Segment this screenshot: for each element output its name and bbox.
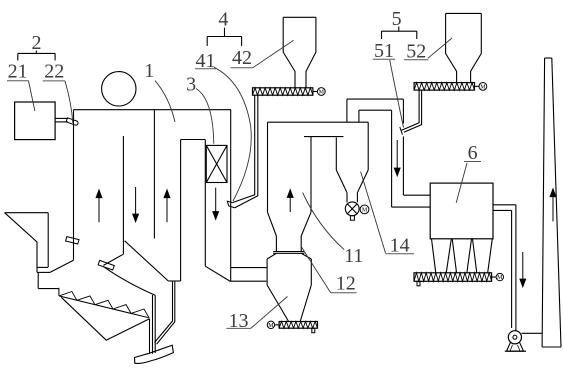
duct to separator [231, 267, 267, 269]
down arrow before fan [522, 252, 524, 281]
leader 6 [456, 163, 467, 203]
furnace right wall [230, 110, 232, 282]
fuel feed chute [5, 212, 49, 214]
svg-text:M: M [268, 323, 274, 329]
svg-text:6: 6 [468, 142, 478, 164]
svg-text:52: 52 [406, 40, 426, 62]
gas duct 11 to 14 bottom [304, 136, 343, 138]
separator 14 body [335, 137, 337, 170]
chimney [542, 58, 545, 347]
bracket for 2 [35, 51, 37, 54]
up arrow in chimney [552, 195, 554, 222]
svg-text:M: M [480, 84, 486, 90]
grate sawteeth [59, 292, 77, 301]
leader 14 [361, 172, 386, 253]
leader 52 [428, 38, 452, 58]
down arrow mid pass [135, 187, 137, 216]
gas duct 11 to 14 top [268, 121, 369, 123]
up arrow third pass [166, 196, 168, 223]
pass divider wall [153, 110, 155, 239]
leader 21 [29, 81, 35, 111]
valve motor [360, 205, 369, 214]
bracket for 4 [224, 28, 226, 37]
filter hoppers [432, 239, 436, 273]
left wall air nozzle [66, 237, 79, 244]
feeder pipe [55, 117, 68, 119]
down arrow in duct [396, 140, 398, 170]
leader 13 [251, 297, 288, 329]
leader 41 [214, 67, 251, 201]
separator 12 body [267, 253, 276, 259]
backpass internal wall [181, 139, 206, 141]
hopper 52 [446, 12, 482, 14]
grate base line [59, 296, 149, 318]
svg-text:5: 5 [392, 8, 402, 30]
leader 1 [155, 81, 175, 122]
filter ash conveyor [414, 273, 492, 282]
svg-text:12: 12 [336, 273, 356, 295]
screw feeder 41 [253, 88, 313, 95]
feeder 41 downspout [233, 95, 255, 202]
partition bottom left spout [103, 254, 123, 265]
leader 12 [301, 246, 331, 292]
slag discharge boot [135, 345, 174, 363]
leader 51 [390, 60, 404, 128]
svg-text:1: 1 [144, 60, 154, 82]
fan to chimney line [522, 332, 543, 334]
filter outlet duct [493, 204, 516, 206]
steam drum circle on furnace top [102, 72, 136, 106]
up arrow in separator 11 [289, 196, 291, 213]
leader 42 [253, 40, 294, 67]
svg-text:M: M [362, 208, 368, 214]
ash pit triangle [61, 297, 149, 340]
boiler furnace 1 body outline [74, 109, 232, 111]
svg-text:M: M [497, 275, 503, 281]
leader 11 [303, 193, 345, 250]
bracket for 5 [398, 27, 400, 32]
svg-text:3: 3 [186, 74, 196, 96]
svg-text:21: 21 [8, 60, 28, 82]
duct 14 up and over [346, 99, 348, 122]
svg-text:42: 42 [232, 47, 252, 69]
svg-text:51: 51 [374, 40, 394, 62]
backpass ash pipe [155, 282, 173, 343]
svg-text:M: M [319, 90, 325, 96]
bag filter 6 shell [430, 183, 493, 239]
up arrow left pass [98, 196, 100, 223]
hopper 42 [283, 16, 316, 18]
slag chute line [104, 267, 156, 296]
partition bottom right slope [125, 241, 169, 281]
spout flange [98, 260, 114, 270]
down arrow backpass [215, 188, 217, 214]
leader 22 [65, 81, 73, 123]
furnace interior partition line [122, 136, 124, 254]
nozzle 22 [66, 118, 78, 125]
rotary valve under 14 [345, 202, 359, 216]
grate housing left edge [36, 268, 38, 272]
svg-text:4: 4 [218, 9, 228, 31]
svg-text:22: 22 [44, 60, 64, 82]
screw feeder 51 [414, 83, 474, 91]
fan [508, 331, 521, 344]
backpass hopper bottom [168, 280, 180, 282]
separator flange [273, 251, 304, 253]
leader 3 [196, 89, 214, 144]
separator 11 body [267, 122, 269, 212]
feeder 51 downspout [402, 90, 420, 130]
svg-text:11: 11 [344, 245, 363, 267]
duct down to filter [402, 99, 404, 123]
heat exchanger 3 box [206, 145, 227, 182]
feeder box 21 [15, 102, 56, 140]
ash screw conveyor 13 [279, 322, 317, 329]
slag drop pipe [152, 295, 154, 354]
